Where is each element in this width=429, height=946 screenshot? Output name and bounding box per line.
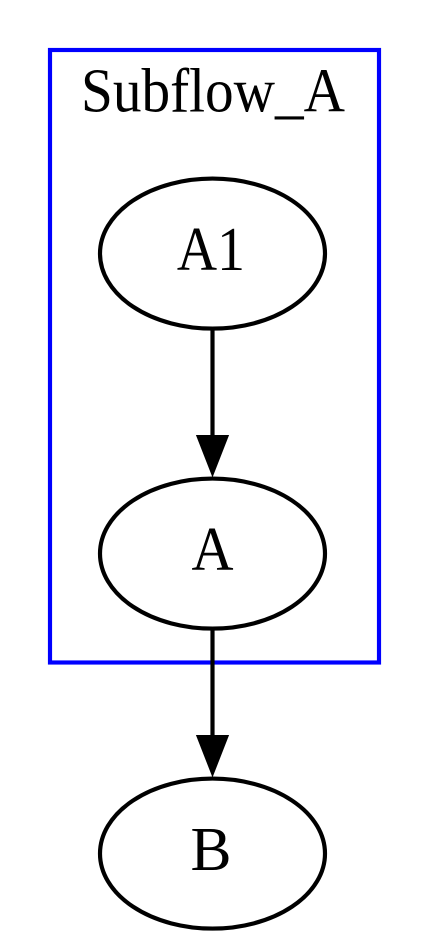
cluster Subflow_A border — [50, 50, 379, 663]
edge A->B arrowhead — [196, 735, 229, 778]
node A1 ellipse — [100, 179, 325, 329]
edge A->B wire — [210, 630, 214, 737]
edge A1->A wire — [210, 330, 214, 437]
node B ellipse — [100, 779, 325, 929]
svg-text:A1: A1 — [177, 216, 245, 284]
svg-text:A: A — [192, 516, 234, 584]
node A ellipse — [100, 479, 325, 629]
svg-text:B: B — [191, 816, 232, 884]
svg-text:Subflow_A: Subflow_A — [81, 58, 345, 126]
edge A1->A arrowhead — [196, 435, 229, 478]
